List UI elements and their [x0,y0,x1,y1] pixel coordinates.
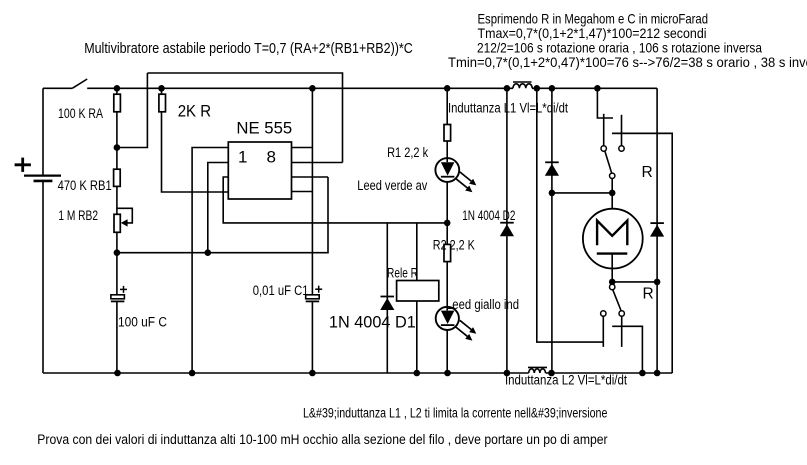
motor M1 [583,209,643,269]
wire pivot to motor node [611,179,613,193]
diode D2 [500,223,514,237]
switch pivot circle lower [610,284,615,289]
svg-text:R: R [642,164,653,181]
wire motor top lead [611,193,613,209]
switch S1 blade [72,79,87,88]
diode D5 [545,162,559,176]
svg-text:Tmin=0,7*(0,1+2*0,47)*100=76 s: Tmin=0,7*(0,1+2*0,47)*100=76 s-->76/2=38… [448,54,807,70]
LED verde D3 [435,158,476,192]
node output junction [444,220,451,227]
wire pin2 stub left [208,163,229,253]
capacitor C 100uF [111,286,127,302]
inductor L2 [528,367,547,373]
svg-text:Multivibratore astabile period: Multivibratore astabile periodo T=0,7 (R… [84,40,413,57]
svg-text:Induttanza L2 Vl=L*di/dt: Induttanza L2 Vl=L*di/dt [505,373,627,388]
potentiometer RB2 1M body [114,214,120,232]
node LED giallo ground [444,370,451,377]
node lower right ground [639,370,646,377]
node relay ground [414,370,421,377]
wire R2 to LED giallo [446,262,448,311]
node link rail [534,85,541,92]
switch contact circle B [619,311,624,316]
wire 2KR bottom lead [162,112,229,192]
wire lower right L link [612,326,642,373]
wire pot bottom lead [116,232,118,252]
wire top rail left segment [43,87,72,89]
wire discharge link horizontal [117,73,147,148]
relay Rele R box [397,281,439,302]
node motor top junction [609,190,616,197]
wire upper contact 2 tick [621,115,623,146]
wire motor bottom cross link [612,281,657,283]
resistor RA 100K [114,94,121,112]
battery B1 [15,158,61,181]
inductor L1 [513,82,532,88]
node switch feed junction [549,190,556,197]
capacitor C1 0.01uF [306,286,323,302]
wire pin7 stub right [292,162,343,164]
node cross link right [654,279,661,286]
wire pin5 stub right [292,191,313,193]
op-amp U1 NE555 box [228,142,291,199]
wire lower contact A tick [602,316,604,347]
node R1 rail [444,85,451,92]
LED giallo D4 [436,307,477,341]
node motor bottom junction [609,279,616,286]
wire relay top lead [416,223,418,281]
wire threshold net horizontal [117,177,328,253]
svg-text:100 uF C: 100 uF C [118,315,167,330]
wire RA bottom lead [116,112,118,148]
wire upper contact 1 tick [603,114,605,146]
wire bottom rail right segment [546,372,673,374]
node D2 ground [504,370,511,377]
svg-text:2K R: 2K R [178,102,211,121]
wire right edge riser [612,133,672,373]
svg-text:L&#39;induttanza L1 , L2 ti li: L&#39;induttanza L1 , L2 ti limita la co… [303,406,607,421]
svg-text:1: 1 [238,147,247,166]
wire aux horizontal y133 [612,132,672,134]
wire Vcc riser [311,88,313,294]
svg-text:0,01 uF C1: 0,01 uF C1 [253,283,309,298]
svg-text:R2 2,2 K: R2 2,2 K [433,238,475,253]
svg-text:Induttanza L1 Vl=L*di/dt: Induttanza L1 Vl=L*di/dt [448,101,568,116]
wire lower blade [613,290,622,311]
wire R2 top lead [446,223,448,245]
wire pot wiper loop [117,208,132,223]
switch pivot circle upper [610,173,615,178]
wire cap C bottom lead [116,301,118,373]
pot wiper arrowhead [121,219,128,226]
svg-text:1N 4004 D1: 1N 4004 D1 [329,312,416,331]
resistor R1 2.2K [444,125,451,142]
switch contact circle 1 [601,146,606,151]
svg-text:R1 2,2 k: R1 2,2 k [387,145,428,160]
node right diode ground [654,370,661,377]
wire RA top lead [116,88,118,94]
svg-text:Prova con dei valori di indutt: Prova con dei valori di induttanza alti … [37,432,608,447]
wire LED verde to output node [446,182,448,223]
svg-text:100 K RA: 100 K RA [58,106,103,121]
wire bottom rail left segment [43,372,529,374]
svg-text:R: R [643,285,654,302]
wire freewheel diode line [551,88,553,373]
node freewheel ground [548,370,555,377]
node RA top [114,85,121,92]
node 2KR top [158,85,165,92]
svg-text:1 M RB2: 1 M RB2 [58,208,98,223]
wire pin8 stub right [292,147,313,149]
svg-text:Leed giallo ind: Leed giallo ind [446,297,519,312]
svg-text:8: 8 [267,147,276,166]
wire RB1 top lead [116,148,118,170]
wire link rail to lower contact [537,88,604,342]
node pin1 ground [189,370,196,377]
wire upper blade [605,151,612,173]
node pin2 junction [205,249,212,256]
diode D1 [380,297,394,311]
wire pin3 stub left [223,177,447,223]
wire pin6 stub right [292,176,329,178]
resistor R2 2.2K [444,244,451,261]
wire right diode line [656,88,658,373]
node upper switch rail [594,85,601,92]
wire D1 anode lead [386,223,388,373]
wire discharge link top [147,73,342,163]
node D2 rail [504,85,511,92]
resistor RB1 470K [114,169,121,186]
wire cap C top lead [116,253,118,295]
wire 2KR top lead [161,88,163,94]
node pot bottom junction [114,249,121,256]
wire R1 to LED [446,141,448,162]
resistor R 2K [159,94,166,112]
wire left battery lead upper [42,88,44,175]
switch contact circle A [601,311,606,316]
node freewheel rail [549,85,556,92]
wire lower contact B tick [621,316,623,347]
node C1 ground [309,370,316,377]
wire top rail right segment [532,87,657,89]
wire R1 top lead [446,88,448,124]
node cap C ground [114,370,121,377]
svg-text:NE 555: NE 555 [236,118,292,137]
wire left battery lead lower [42,181,44,373]
svg-text:470 K RB1: 470 K RB1 [58,178,112,193]
wire switch feed horizontal [552,192,612,194]
wire RB1 to pot [116,186,118,214]
node RA-RB1 junction [114,144,121,151]
wire pin1 stub left [192,148,228,374]
wire D2 line [506,88,508,373]
wire top rail mid segment [87,87,513,89]
node Vcc rail [309,85,316,92]
wire upper switch feed L [597,88,613,118]
wire C1 bottom lead [311,301,313,373]
wire LED giallo bottom lead [446,330,448,373]
diode D6 [650,223,664,237]
svg-text:1N 4004 D2: 1N 4004 D2 [462,208,515,223]
wire motor bottom lead [611,254,613,282]
wire relay bottom lead [416,301,418,373]
switch contact circle 2 [619,146,624,151]
svg-text:Leed verde av: Leed verde av [357,178,427,193]
svg-text:Rele R: Rele R [387,266,418,281]
